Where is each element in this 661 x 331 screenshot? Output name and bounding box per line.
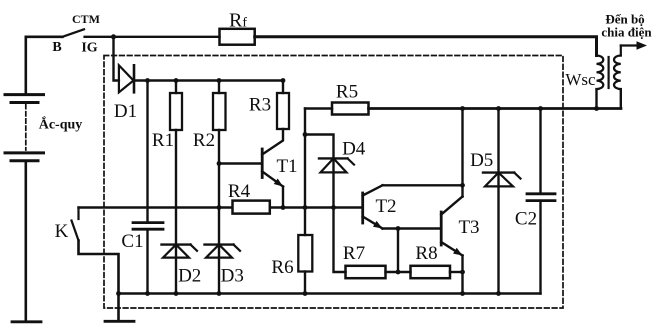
resistor R4	[228, 181, 270, 214]
svg-text:CTM: CTM	[72, 12, 100, 26]
svg-text:R1: R1	[152, 130, 174, 151]
ground (module)	[105, 294, 134, 322]
zener D4	[305, 135, 366, 208]
junction dot D4 branch	[303, 132, 308, 137]
resistor R6	[271, 208, 312, 294]
resistor R5	[305, 82, 369, 115]
junction dot	[460, 270, 465, 275]
wire/arrow to distributor	[601, 12, 652, 50]
transistor T1	[219, 129, 298, 208]
svg-text:D1: D1	[114, 101, 137, 122]
resistor R3	[249, 81, 289, 130]
svg-text:T1: T1	[276, 156, 297, 177]
wire R7 branch	[334, 208, 346, 273]
junction dots on control rail	[217, 205, 222, 210]
svg-text:Rf: Rf	[229, 10, 247, 32]
junction dots supply rail	[460, 106, 465, 111]
resistor R7	[343, 243, 386, 278]
junction dot	[396, 270, 401, 275]
wire D1 branch	[114, 37, 119, 81]
wire R7-R8 link	[386, 271, 411, 273]
svg-text:R4: R4	[228, 181, 251, 202]
ground (battery)	[12, 320, 41, 323]
wire control rail y207	[79, 206, 363, 208]
battery Ắc-quy	[5, 37, 82, 322]
wire T3 collector column	[461, 109, 463, 197]
svg-text:D5: D5	[470, 150, 493, 171]
junction dots on node-80	[145, 78, 150, 83]
wire bottom ground rail	[119, 292, 541, 294]
wire T2 collector tie	[383, 184, 463, 186]
wire feedback drop	[397, 229, 399, 273]
switch CTM	[52, 12, 100, 56]
wire node-80 rail	[134, 79, 283, 81]
svg-text:Ắc-quy: Ắc-quy	[39, 116, 83, 133]
wire R8 to T3 emitter	[450, 271, 463, 273]
capacitor C2	[515, 109, 555, 294]
svg-text:R6: R6	[271, 257, 293, 278]
svg-text:IG: IG	[81, 41, 97, 56]
svg-text:Wsc: Wsc	[565, 70, 596, 89]
transistor T2	[363, 185, 397, 228]
svg-text:C1: C1	[121, 231, 143, 252]
svg-text:T3: T3	[458, 217, 479, 238]
zener D2	[162, 245, 202, 294]
wire supply rail y108	[369, 107, 622, 110]
svg-text:D2: D2	[178, 266, 201, 287]
svg-text:D4: D4	[342, 139, 366, 160]
junction dot	[460, 183, 465, 188]
zener D3	[205, 245, 244, 294]
junction dot	[396, 226, 401, 231]
dashed module box	[104, 56, 563, 309]
junction dot	[111, 34, 116, 39]
capacitor C1	[121, 81, 163, 294]
svg-text:K: K	[55, 221, 69, 242]
svg-text:chia điện: chia điện	[601, 24, 652, 39]
wire R5 left leg	[304, 109, 306, 208]
switch K	[55, 208, 119, 294]
transistor T3	[441, 197, 479, 256]
diode D1	[114, 65, 137, 122]
resistor R2	[193, 81, 226, 244]
wire T3 emitter column	[461, 256, 463, 294]
junction dots bottom rail	[116, 291, 121, 296]
junction dot T1 base	[217, 161, 222, 166]
transformer Wsc (ignition coil)	[565, 46, 620, 109]
resistor Rf	[220, 10, 255, 45]
wire top run IG to Rf	[85, 36, 220, 38]
wire T2 emitter to T3 base	[383, 227, 442, 229]
svg-text:R3: R3	[249, 95, 271, 116]
svg-text:B: B	[52, 40, 61, 55]
resistor R8	[411, 243, 451, 278]
svg-text:R5: R5	[336, 82, 358, 103]
resistor R1	[152, 81, 182, 244]
wire Rf to ignition coil (thick)	[255, 37, 597, 56]
svg-text:T2: T2	[375, 196, 396, 217]
svg-text:R2: R2	[193, 130, 215, 151]
svg-text:D3: D3	[221, 266, 244, 287]
zener D5	[470, 109, 520, 294]
svg-text:R8: R8	[415, 243, 437, 264]
svg-text:R7: R7	[343, 243, 365, 264]
svg-text:C2: C2	[515, 209, 537, 230]
